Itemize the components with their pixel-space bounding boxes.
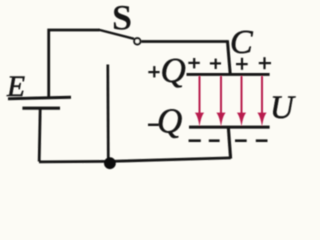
svg-text:S: S bbox=[112, 0, 132, 38]
svg-text:Q: Q bbox=[161, 51, 186, 90]
svg-text:C: C bbox=[230, 24, 253, 61]
svg-text:U: U bbox=[270, 90, 296, 126]
svg-text:Q: Q bbox=[157, 102, 182, 141]
svg-text:E: E bbox=[6, 71, 25, 103]
